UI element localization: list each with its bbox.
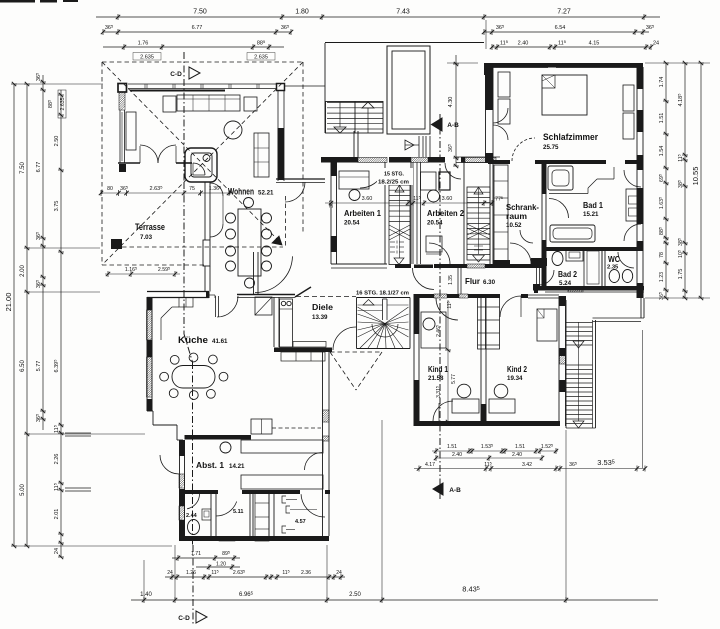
svg-text:6.54: 6.54 bbox=[555, 25, 566, 31]
svg-text:4.17: 4.17 bbox=[425, 462, 435, 468]
svg-text:A-B: A-B bbox=[447, 122, 459, 129]
svg-text:21.00: 21.00 bbox=[4, 293, 13, 312]
svg-text:1.51: 1.51 bbox=[447, 444, 457, 450]
svg-text:6.50: 6.50 bbox=[20, 360, 26, 372]
svg-text:2.35: 2.35 bbox=[607, 265, 619, 271]
svg-text:10.55: 10.55 bbox=[691, 167, 700, 186]
svg-text:78: 78 bbox=[659, 252, 665, 258]
svg-text:5.11: 5.11 bbox=[233, 509, 243, 515]
svg-text:6.77: 6.77 bbox=[192, 25, 203, 31]
svg-text:5.77: 5.77 bbox=[451, 374, 457, 384]
svg-text:Terrasse: Terrasse bbox=[135, 222, 165, 232]
svg-text:80: 80 bbox=[107, 186, 113, 192]
svg-text:1.80: 1.80 bbox=[295, 9, 309, 16]
svg-text:2.635: 2.635 bbox=[254, 55, 268, 61]
svg-text:WC: WC bbox=[608, 254, 620, 264]
svg-text:24: 24 bbox=[336, 570, 342, 576]
svg-text:7.03: 7.03 bbox=[140, 234, 153, 241]
svg-text:Abst. 1: Abst. 1 bbox=[196, 460, 224, 470]
svg-text:Diele: Diele bbox=[312, 302, 333, 312]
svg-text:6.77: 6.77 bbox=[36, 162, 42, 173]
svg-text:1.75: 1.75 bbox=[678, 269, 684, 280]
svg-text:15 STG.: 15 STG. bbox=[384, 172, 405, 178]
svg-text:2.40: 2.40 bbox=[452, 452, 462, 458]
svg-text:5.24: 5.24 bbox=[559, 280, 572, 287]
svg-text:10.52: 10.52 bbox=[506, 222, 522, 229]
svg-text:A-B: A-B bbox=[449, 487, 461, 494]
svg-text:3.75: 3.75 bbox=[54, 201, 60, 212]
svg-text:7.43: 7.43 bbox=[396, 9, 410, 16]
svg-text:7.50: 7.50 bbox=[193, 9, 207, 16]
svg-text:2.40: 2.40 bbox=[512, 452, 522, 458]
svg-text:Schlafzimmer: Schlafzimmer bbox=[543, 132, 598, 142]
svg-text:52.21: 52.21 bbox=[258, 190, 274, 197]
svg-text:3.60: 3.60 bbox=[442, 196, 453, 202]
svg-text:C-D: C-D bbox=[178, 615, 190, 622]
svg-text:25.75: 25.75 bbox=[543, 144, 559, 151]
svg-text:13.39: 13.39 bbox=[312, 314, 328, 321]
svg-text:16 STG. 18.1/27 cm: 16 STG. 18.1/27 cm bbox=[356, 291, 410, 297]
svg-text:2.50: 2.50 bbox=[54, 136, 60, 147]
svg-text:24: 24 bbox=[653, 41, 659, 47]
svg-text:1.35: 1.35 bbox=[448, 275, 454, 285]
svg-text:1.23: 1.23 bbox=[659, 272, 665, 282]
svg-text:Wohnen: Wohnen bbox=[228, 187, 254, 197]
svg-text:Arbeiten 2: Arbeiten 2 bbox=[427, 208, 464, 218]
svg-text:15.21: 15.21 bbox=[583, 211, 599, 218]
svg-text:2.635: 2.635 bbox=[140, 55, 154, 61]
svg-text:3.60: 3.60 bbox=[362, 196, 373, 202]
svg-text:Flur: Flur bbox=[465, 276, 481, 286]
svg-text:5.00: 5.00 bbox=[20, 484, 26, 496]
svg-text:1.76: 1.76 bbox=[138, 41, 149, 47]
svg-text:1.26: 1.26 bbox=[186, 570, 196, 576]
svg-text:1.51: 1.51 bbox=[515, 444, 525, 450]
svg-text:24: 24 bbox=[167, 570, 173, 576]
svg-text:19.34: 19.34 bbox=[507, 375, 523, 382]
svg-text:1.54: 1.54 bbox=[659, 146, 665, 157]
svg-text:C-D: C-D bbox=[170, 71, 182, 78]
svg-text:1.40: 1.40 bbox=[140, 592, 152, 598]
svg-text:raum: raum bbox=[506, 211, 527, 221]
svg-text:2.635: 2.635 bbox=[60, 97, 66, 110]
svg-text:Kind 2: Kind 2 bbox=[507, 364, 527, 374]
svg-text:7.27: 7.27 bbox=[557, 9, 571, 16]
svg-text:1.20: 1.20 bbox=[216, 562, 226, 568]
svg-text:1.74: 1.74 bbox=[659, 77, 665, 88]
svg-text:2.26: 2.26 bbox=[54, 454, 60, 465]
svg-text:Bad 2: Bad 2 bbox=[558, 269, 577, 279]
svg-text:4.30: 4.30 bbox=[448, 97, 454, 108]
svg-text:41.61: 41.61 bbox=[212, 338, 228, 345]
svg-text:4.57: 4.57 bbox=[295, 519, 306, 525]
svg-text:2.44: 2.44 bbox=[186, 513, 198, 519]
svg-text:2.40: 2.40 bbox=[518, 41, 529, 47]
svg-text:1.51: 1.51 bbox=[659, 113, 665, 124]
svg-text:14.21: 14.21 bbox=[229, 463, 245, 470]
svg-text:1.71: 1.71 bbox=[191, 551, 201, 557]
svg-text:21.58: 21.58 bbox=[428, 375, 444, 382]
svg-text:2.00: 2.00 bbox=[20, 265, 26, 277]
svg-text:2.01: 2.01 bbox=[54, 509, 60, 520]
svg-text:20.54: 20.54 bbox=[344, 220, 360, 227]
svg-text:Bad 1: Bad 1 bbox=[583, 200, 603, 210]
svg-text:7.50: 7.50 bbox=[20, 162, 26, 174]
svg-text:4.15: 4.15 bbox=[589, 41, 600, 47]
svg-text:24: 24 bbox=[54, 548, 60, 554]
svg-text:2.50: 2.50 bbox=[349, 592, 361, 598]
svg-text:3.42: 3.42 bbox=[522, 462, 532, 468]
svg-text:Küche: Küche bbox=[178, 335, 208, 345]
svg-text:Arbeiten 1: Arbeiten 1 bbox=[344, 208, 381, 218]
svg-text:18.2/25 cm: 18.2/25 cm bbox=[378, 180, 410, 186]
svg-text:Kind 1: Kind 1 bbox=[428, 364, 448, 374]
svg-text:5.77: 5.77 bbox=[36, 361, 42, 372]
svg-text:6.30: 6.30 bbox=[483, 279, 496, 286]
svg-text:2.36: 2.36 bbox=[301, 570, 311, 576]
svg-text:20.54: 20.54 bbox=[427, 220, 443, 227]
svg-text:75: 75 bbox=[189, 186, 195, 192]
